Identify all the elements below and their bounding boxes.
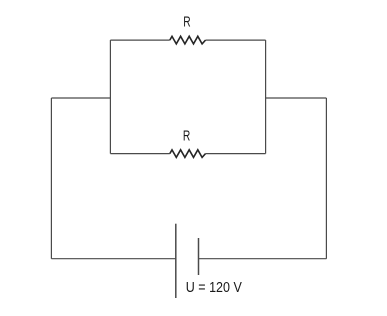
svg-text:R: R <box>183 14 190 30</box>
svg-text:R: R <box>183 128 190 144</box>
svg-text:U = 120 V: U = 120 V <box>186 280 242 296</box>
